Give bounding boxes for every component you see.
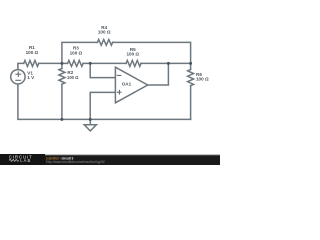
svg-text:100 Ω: 100 Ω	[26, 50, 39, 55]
svg-text:100 Ω: 100 Ω	[196, 77, 209, 82]
svg-text:1 V: 1 V	[27, 75, 35, 80]
svg-text:100 Ω: 100 Ω	[126, 52, 139, 57]
svg-text:100 Ω: 100 Ω	[70, 50, 83, 55]
svg-text:LAB: LAB	[20, 158, 31, 163]
svg-text:http://www.circuitlab.com/circ: http://www.circuitlab.com/circuit/cn2qy2…	[47, 160, 105, 164]
svg-text:100 Ω: 100 Ω	[98, 30, 111, 35]
svg-text:100 Ω: 100 Ω	[67, 75, 79, 80]
svg-text:OA1: OA1	[122, 82, 132, 87]
